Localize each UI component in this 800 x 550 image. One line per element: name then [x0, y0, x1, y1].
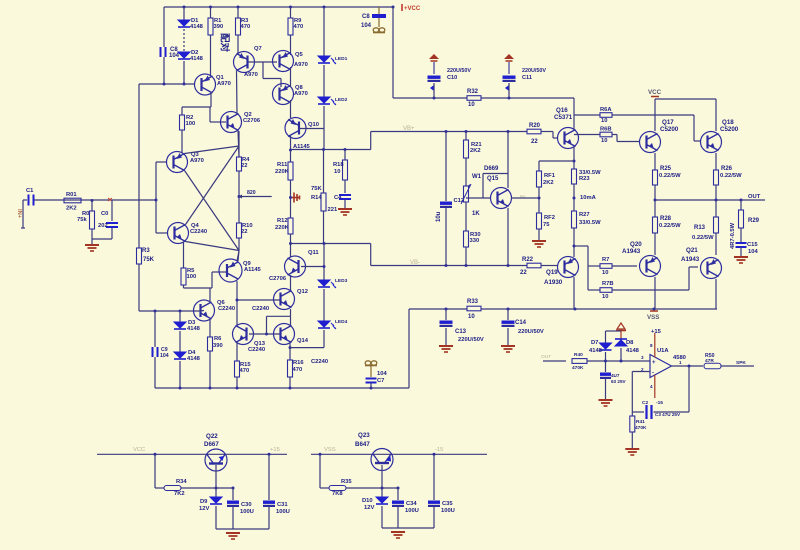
svg-text:IN+: IN+ [16, 209, 22, 219]
svg-text:C14: C14 [515, 320, 527, 326]
svg-text:A970: A970 [294, 62, 308, 68]
svg-text:Q16: Q16 [556, 107, 568, 114]
svg-text:R23: R23 [579, 176, 590, 182]
svg-text:104: 104 [160, 353, 169, 359]
svg-text:12V: 12V [199, 506, 209, 512]
svg-text:10: 10 [334, 169, 340, 175]
svg-text:10: 10 [601, 118, 607, 124]
svg-text:OUT: OUT [541, 354, 551, 360]
svg-text:A970: A970 [294, 91, 308, 97]
svg-text:2K2: 2K2 [470, 148, 481, 154]
svg-text:RF2: RF2 [544, 215, 555, 221]
svg-text:220U/50V: 220U/50V [458, 337, 484, 343]
svg-text:C2240: C2240 [252, 306, 269, 312]
svg-text:63 25V: 63 25V [611, 379, 626, 384]
svg-text:R01: R01 [66, 192, 77, 198]
svg-text:Q10: Q10 [308, 122, 319, 128]
svg-text:U1A: U1A [657, 348, 669, 354]
svg-text:C31: C31 [277, 502, 288, 508]
svg-text:A1930: A1930 [544, 279, 563, 286]
svg-text:A1943: A1943 [622, 248, 641, 255]
svg-text:C7: C7 [377, 378, 384, 384]
svg-text:Q20: Q20 [630, 241, 642, 248]
svg-text:104: 104 [377, 371, 387, 377]
svg-text:A1145: A1145 [244, 267, 262, 273]
svg-text:C2240: C2240 [190, 229, 207, 235]
svg-text:22: 22 [531, 139, 538, 145]
svg-text:C35: C35 [442, 501, 453, 507]
svg-text:0.22/5W: 0.22/5W [692, 235, 714, 241]
svg-text:R6: R6 [214, 336, 222, 342]
svg-text:75K: 75K [143, 257, 155, 263]
svg-text:R11: R11 [277, 162, 288, 168]
svg-text:C13: C13 [455, 329, 467, 335]
svg-text:C5200: C5200 [720, 126, 739, 133]
svg-text:390: 390 [214, 24, 224, 30]
svg-text:VSS: VSS [647, 314, 659, 321]
svg-text:A1943: A1943 [681, 256, 700, 263]
svg-text:470: 470 [294, 24, 304, 30]
svg-text:Q21: Q21 [686, 247, 698, 254]
svg-text:C10: C10 [447, 75, 457, 81]
svg-text:C30: C30 [241, 502, 252, 508]
svg-text:10: 10 [602, 270, 608, 276]
svg-text:R34: R34 [176, 479, 187, 485]
svg-text:R13: R13 [694, 225, 706, 231]
svg-text:C2240: C2240 [311, 359, 328, 365]
svg-text:470: 470 [240, 368, 250, 374]
svg-text:221: 221 [328, 207, 338, 213]
svg-text:A970: A970 [217, 81, 231, 87]
svg-text:R22: R22 [522, 257, 534, 263]
svg-text:C1: C1 [26, 188, 34, 194]
svg-text:+15: +15 [651, 329, 662, 335]
svg-text:4R7-0.5W: 4R7-0.5W [730, 222, 736, 249]
svg-text:R6A: R6A [600, 107, 612, 113]
svg-text:100U: 100U [276, 509, 290, 515]
svg-text:10: 10 [601, 138, 607, 144]
svg-text:R7: R7 [602, 257, 609, 263]
svg-text:C8: C8 [362, 14, 370, 20]
svg-text:Q18: Q18 [722, 119, 734, 126]
svg-text:R6B: R6B [600, 127, 612, 133]
svg-text:820: 820 [247, 190, 256, 196]
svg-text:4148: 4148 [190, 24, 204, 30]
svg-text:1: 1 [679, 360, 682, 365]
svg-text:C4: C4 [334, 195, 342, 201]
svg-text:104: 104 [361, 23, 372, 29]
svg-text:10u: 10u [436, 211, 442, 222]
svg-text:A970: A970 [244, 72, 258, 78]
svg-text:-15: -15 [656, 400, 663, 406]
svg-text:Q17: Q17 [662, 119, 674, 126]
svg-text:10: 10 [602, 294, 608, 300]
svg-text:10: 10 [468, 102, 475, 108]
svg-text:R16: R16 [293, 360, 304, 366]
svg-text:D8: D8 [626, 340, 634, 346]
svg-text:7K8: 7K8 [332, 491, 343, 497]
svg-text:470: 470 [241, 24, 251, 30]
svg-text:R32: R32 [467, 89, 479, 95]
svg-text:47R: 47R [705, 358, 714, 364]
svg-text:R41: R41 [636, 419, 645, 425]
svg-text:A970: A970 [190, 158, 204, 164]
svg-text:C2706: C2706 [243, 118, 261, 124]
svg-text:R18: R18 [333, 162, 344, 168]
svg-text:202: 202 [98, 223, 108, 229]
svg-text:B647: B647 [355, 441, 370, 448]
svg-text:R12: R12 [277, 218, 288, 224]
svg-text:0.22/5W: 0.22/5W [720, 173, 742, 179]
svg-text:4148: 4148 [589, 348, 603, 354]
svg-text:C11: C11 [522, 75, 532, 81]
svg-text:220U/50V: 220U/50V [447, 68, 471, 74]
svg-text:C2240: C2240 [248, 347, 265, 353]
svg-text:R40: R40 [574, 352, 583, 358]
svg-text:8: 8 [650, 343, 653, 348]
svg-text:R14: R14 [311, 195, 322, 201]
svg-text:VSS: VSS [324, 447, 336, 453]
svg-text:VB+: VB+ [403, 126, 415, 132]
svg-text:VCC: VCC [648, 89, 662, 96]
svg-text:Q19: Q19 [546, 269, 558, 276]
svg-text:R29: R29 [748, 218, 760, 224]
svg-text:12V: 12V [364, 505, 374, 511]
svg-text:D669: D669 [484, 166, 499, 172]
svg-text:D10: D10 [362, 498, 373, 504]
svg-text:LED4: LED4 [335, 319, 348, 325]
svg-text:C34: C34 [406, 501, 417, 507]
svg-text:C2706: C2706 [269, 276, 287, 282]
svg-text:10mA: 10mA [580, 195, 597, 201]
svg-text:220U/50V: 220U/50V [522, 68, 546, 74]
svg-text:C3 47U 25V: C3 47U 25V [655, 412, 681, 417]
svg-text:-15: -15 [435, 447, 443, 453]
svg-text:Q14: Q14 [297, 338, 309, 344]
svg-text:22: 22 [241, 163, 247, 169]
svg-text:Q15: Q15 [487, 176, 499, 182]
svg-text:RF1: RF1 [544, 173, 556, 179]
svg-text:R7B: R7B [602, 281, 614, 287]
svg-text:C2240: C2240 [218, 306, 235, 312]
svg-text:104: 104 [169, 53, 180, 59]
svg-text:1K: 1K [472, 211, 480, 217]
svg-text:D667: D667 [204, 441, 219, 448]
svg-text:330: 330 [470, 238, 480, 244]
svg-text:75: 75 [543, 222, 550, 228]
svg-text:100U: 100U [405, 508, 419, 514]
svg-text:Q12: Q12 [297, 289, 308, 295]
svg-text:22: 22 [520, 270, 527, 276]
svg-text:LED3: LED3 [335, 278, 348, 284]
svg-text:10: 10 [468, 314, 475, 320]
svg-text:OUT: OUT [748, 194, 761, 200]
svg-text:LED2: LED2 [335, 97, 348, 103]
svg-text:-: - [652, 371, 654, 377]
svg-text:VB-: VB- [410, 260, 420, 266]
svg-text:75K: 75K [311, 186, 322, 192]
svg-text:C15: C15 [747, 242, 758, 248]
svg-text:R33: R33 [467, 299, 479, 305]
svg-text:470K: 470K [635, 425, 647, 431]
svg-text:4148: 4148 [187, 356, 201, 362]
svg-text:R27: R27 [579, 212, 590, 218]
svg-text:R3: R3 [142, 248, 150, 254]
svg-text:C5371: C5371 [554, 114, 573, 121]
svg-text:4U7: 4U7 [611, 373, 620, 378]
svg-text:W1: W1 [472, 174, 482, 180]
svg-text:0.22/5W: 0.22/5W [659, 223, 681, 229]
svg-text:2K2: 2K2 [543, 180, 554, 186]
svg-text:4148: 4148 [626, 348, 640, 354]
svg-text:100U: 100U [441, 508, 455, 514]
svg-text:3: 3 [641, 355, 644, 360]
svg-text:4: 4 [650, 384, 653, 389]
svg-text:22: 22 [241, 229, 247, 235]
svg-text:+15: +15 [270, 447, 280, 453]
svg-text:470K: 470K [572, 365, 584, 371]
svg-text:4148: 4148 [190, 56, 204, 62]
svg-text:220K: 220K [275, 225, 290, 231]
svg-text:220K: 220K [275, 169, 290, 175]
svg-text:Q11: Q11 [308, 250, 319, 256]
svg-text:104: 104 [748, 249, 758, 255]
svg-text:2K2: 2K2 [66, 206, 77, 212]
svg-text:390: 390 [213, 343, 223, 349]
svg-text:470: 470 [293, 367, 303, 373]
svg-text:配对: 配对 [219, 33, 231, 53]
svg-text:R35: R35 [341, 479, 352, 485]
svg-text:75k: 75k [77, 217, 87, 223]
svg-text:0.22/5W: 0.22/5W [659, 173, 681, 179]
svg-text:R25: R25 [660, 166, 672, 172]
svg-text:100U: 100U [240, 509, 254, 515]
svg-text:+VCC: +VCC [404, 6, 421, 12]
svg-text:R20: R20 [529, 123, 541, 129]
svg-text:C0: C0 [101, 211, 108, 217]
svg-text:+: + [652, 360, 656, 366]
svg-text:220U/50V: 220U/50V [518, 329, 544, 335]
svg-text:VCC: VCC [133, 447, 145, 453]
svg-text:SPK: SPK [736, 360, 746, 366]
svg-text:Q5: Q5 [295, 52, 304, 58]
svg-text:Q7: Q7 [254, 46, 262, 52]
svg-text:Q22: Q22 [206, 433, 218, 440]
svg-text:100: 100 [187, 274, 197, 280]
svg-text:100: 100 [186, 121, 196, 127]
svg-text:LED1: LED1 [335, 56, 348, 62]
svg-text:4148: 4148 [187, 326, 201, 332]
svg-text:Q23: Q23 [358, 432, 370, 439]
svg-text:D7: D7 [591, 340, 598, 346]
svg-text:R26: R26 [721, 166, 733, 172]
svg-text:7K2: 7K2 [174, 491, 185, 497]
svg-text:D9: D9 [200, 499, 208, 505]
svg-text:33/0.5W: 33/0.5W [579, 220, 601, 226]
svg-text:R28: R28 [660, 216, 672, 222]
svg-text:C5200: C5200 [660, 126, 679, 133]
